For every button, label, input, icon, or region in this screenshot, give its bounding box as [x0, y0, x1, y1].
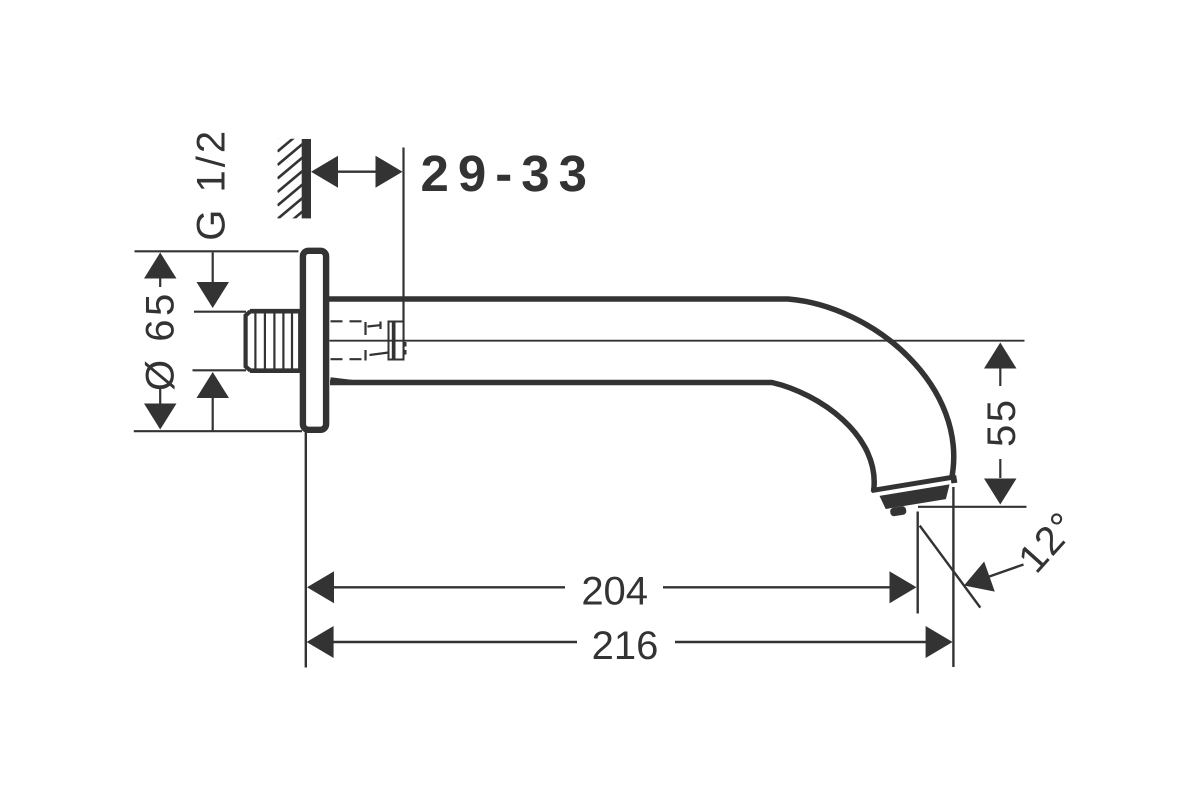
aerator band [879, 484, 951, 509]
escutcheon flange [303, 251, 326, 430]
spout outlet tip [871, 475, 961, 519]
spout top edge and outer curve [329, 299, 954, 480]
body end line [872, 477, 952, 490]
svg-text:Ø 65: Ø 65 [139, 290, 183, 391]
aerator foot [890, 506, 907, 517]
screw tip marks [403, 342, 407, 347]
extension line thread bottom [193, 369, 247, 371]
right extension line 216 [952, 487, 954, 667]
extension line thread top [194, 311, 246, 313]
extension line 55 bottom [918, 506, 1027, 508]
extension line bottom (flange bottom) [134, 430, 302, 432]
tube centerline (extension for 55) [330, 340, 1025, 342]
dimension G1/2 lower arrow [197, 372, 230, 398]
hidden union pipe (dashed) top [331, 321, 389, 360]
threaded pipe G1/2 [246, 311, 303, 371]
arrow right (to centerline) [376, 156, 403, 188]
svg-text:G 1/2: G 1/2 [190, 128, 234, 241]
svg-text:204: 204 [581, 570, 648, 614]
svg-text:55: 55 [980, 398, 1024, 448]
svg-text:12°: 12° [1010, 503, 1086, 581]
dimension 29-33 line [336, 170, 378, 172]
right extension line 204 [917, 512, 919, 614]
wall hatch [278, 117, 303, 233]
angle arrow 12deg [968, 565, 1024, 585]
spout bottom edge step at flange [331, 379, 356, 382]
dimension 55 lower arrow [999, 459, 1001, 478]
outlet slant reference line [920, 526, 981, 608]
set screw head [389, 322, 404, 360]
dimension 216 [307, 626, 334, 658]
svg-text:29-33: 29-33 [421, 145, 596, 202]
arrow left (to wall) [311, 156, 338, 188]
left extension line for 204/216 [305, 432, 307, 668]
dimension G1/2 upper arrow [212, 253, 214, 283]
wall surface line [302, 139, 311, 218]
dimension D65 upper arrow [144, 253, 177, 279]
outer corner nub [950, 475, 957, 483]
dimension 204 [307, 571, 334, 603]
dimension 55 upper arrow [984, 343, 1017, 369]
dimension D65 lower arrow [159, 388, 161, 404]
extension line top (flange top) [135, 250, 299, 252]
svg-text:216: 216 [592, 624, 659, 668]
mounting centerline [402, 148, 404, 357]
spout bottom edge and inner curve [330, 383, 874, 493]
